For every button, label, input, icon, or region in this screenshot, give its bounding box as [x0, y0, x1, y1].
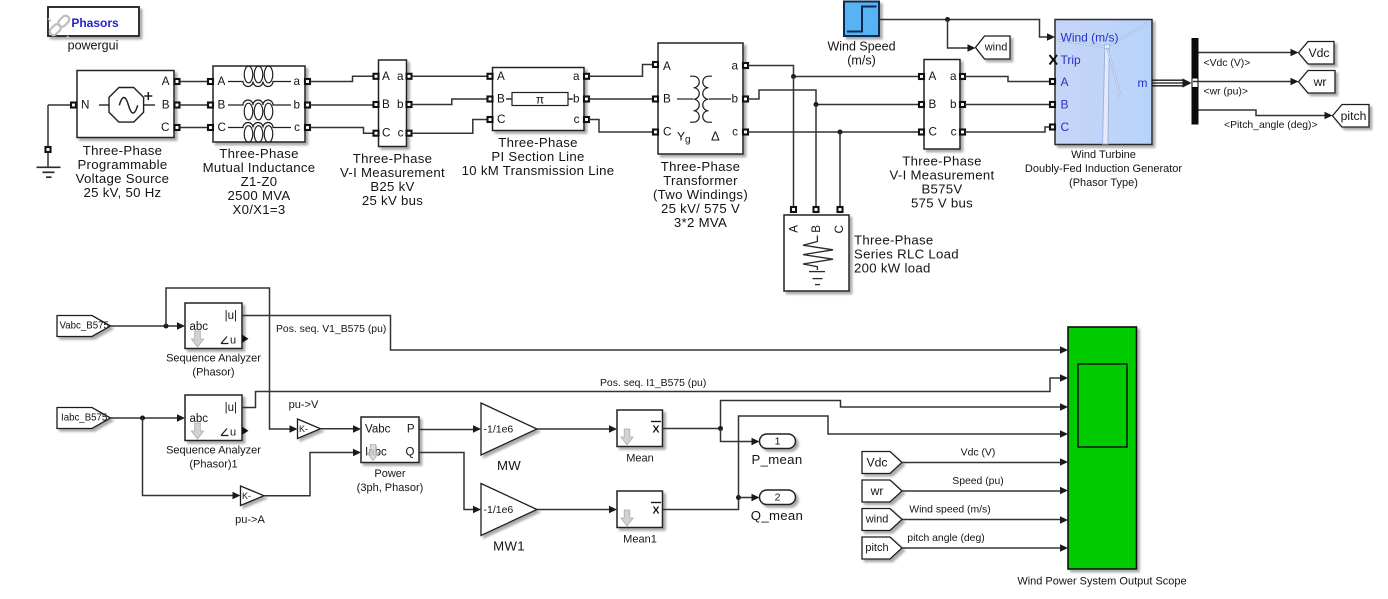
block: Sequence Analyzer (Phasor)1	[166, 395, 261, 471]
svg-text:2: 2	[775, 492, 781, 504]
svg-text:pitch: pitch	[1341, 109, 1367, 123]
svg-text:B: B	[929, 98, 937, 111]
wire bus to Vdc goto	[1199, 52, 1292, 54]
from tag pitch	[862, 537, 902, 559]
wire Mean1 to junction and scope in4	[663, 416, 1061, 510]
svg-text:1: 1	[775, 436, 781, 448]
svg-text:Vabc_B575: Vabc_B575	[60, 321, 109, 332]
svg-text:c: c	[732, 126, 738, 139]
wire wind speed to turbine Wind input	[879, 20, 1047, 38]
svg-text:a: a	[293, 75, 300, 88]
wire VI25 a to PI A	[412, 75, 488, 77]
svg-text:Mean: Mean	[626, 453, 654, 465]
wire junction to Q_mean	[739, 497, 753, 499]
wire tap a to RLC A	[793, 77, 795, 208]
svg-text:A: A	[1061, 75, 1069, 89]
wire junction to P_mean	[721, 429, 753, 442]
svg-text:V-I Measurement: V-I Measurement	[890, 168, 995, 183]
svg-text:b: b	[293, 99, 300, 112]
svg-text:3*2 MVA: 3*2 MVA	[674, 215, 727, 230]
junction Iabc	[140, 416, 145, 421]
wire VI575 a to turbine A	[965, 77, 1050, 82]
wire Q to MW1	[419, 453, 474, 510]
wire VI25 c to PI C	[412, 120, 488, 134]
wire mutual b to VI25 B	[310, 104, 373, 106]
wire mutual a to VI25 A	[310, 76, 373, 81]
svg-text:B: B	[382, 98, 390, 111]
svg-text:a: a	[573, 70, 580, 83]
powergui block	[48, 7, 139, 53]
svg-text:A: A	[788, 225, 801, 233]
svg-text:c: c	[574, 113, 580, 126]
goto tag wr	[1299, 71, 1336, 94]
svg-text:Wind speed (m/s): Wind speed (m/s)	[909, 505, 990, 516]
svg-text:Wind Power System Output Scope: Wind Power System Output Scope	[1017, 576, 1186, 588]
wire tap b to RLC B	[815, 105, 817, 208]
svg-text:Pos. seq. I1_B575 (pu): Pos. seq. I1_B575 (pu)	[600, 378, 706, 389]
svg-text:-1/1e6: -1/1e6	[484, 504, 514, 516]
turbine art	[1057, 23, 1148, 144]
svg-text:C: C	[1061, 120, 1070, 134]
from tag wind	[862, 509, 902, 531]
svg-text:pu->V: pu->V	[289, 399, 319, 411]
svg-text:B: B	[162, 99, 170, 112]
svg-text:B25 kV: B25 kV	[370, 179, 414, 194]
svg-text:pu->A: pu->A	[235, 514, 265, 526]
svg-text:<wr (pu)>: <wr (pu)>	[1204, 87, 1248, 98]
wire VI575 b to turbine B	[965, 104, 1050, 106]
svg-text:Three-Phase: Three-Phase	[661, 159, 741, 174]
svg-text:<Vdc (V)>: <Vdc (V)>	[1204, 58, 1251, 69]
svg-text:Y: Y	[677, 130, 685, 144]
trip X unconnected	[1050, 55, 1058, 65]
svg-text:Iabc_B575: Iabc_B575	[61, 413, 107, 424]
wire P to MW	[419, 429, 474, 431]
wire Vabc junction to pu-V gain	[166, 288, 290, 429]
svg-text:10 kM Transmission Line: 10 kM Transmission Line	[462, 163, 615, 178]
svg-text:a: a	[397, 70, 404, 83]
wire XFMR b to VI575 B	[748, 90, 919, 105]
wire XFMR c to VI575 C	[748, 131, 919, 133]
svg-text:Transformer: Transformer	[663, 173, 738, 188]
svg-text:(Phasor): (Phasor)	[192, 367, 234, 379]
junction b	[814, 102, 819, 107]
svg-text:Wind (m/s): Wind (m/s)	[1061, 31, 1119, 45]
svg-text:A: A	[929, 70, 937, 83]
svg-text:u: u	[230, 335, 236, 347]
svg-text:-1/1e6: -1/1e6	[484, 424, 514, 436]
svg-text:Voltage Source: Voltage Source	[76, 171, 170, 186]
bus selector bar	[1192, 38, 1199, 125]
svg-text:C: C	[497, 113, 505, 126]
svg-text:g: g	[685, 135, 691, 146]
svg-text:Vdc: Vdc	[866, 456, 887, 470]
wire pitch to scope in8	[902, 547, 1061, 549]
svg-text:c: c	[294, 121, 300, 134]
svg-text:c: c	[951, 126, 957, 139]
svg-text:P: P	[407, 424, 415, 436]
svg-text:π: π	[536, 93, 544, 107]
wire Vabc to analyzer1	[111, 325, 178, 327]
wire mutual c to VI25 C	[310, 128, 373, 134]
from tag Iabc_B575	[57, 408, 111, 429]
svg-text:Pos. seq. V1_B575 (pu): Pos. seq. V1_B575 (pu)	[276, 324, 386, 335]
svg-text:C: C	[161, 121, 169, 134]
wire pu-A to Power Iabc	[264, 453, 354, 496]
wire Mean to junction and scope in3	[663, 401, 1061, 429]
svg-text:PI Section Line: PI Section Line	[491, 149, 584, 164]
svg-text:(Phasor Type): (Phasor Type)	[1069, 177, 1138, 189]
wire source C to mutual C	[180, 127, 209, 129]
svg-text:575 V bus: 575 V bus	[911, 196, 973, 211]
wire I1 positive sequence to scope in2	[242, 378, 1061, 408]
svg-text:Vdc: Vdc	[1308, 46, 1329, 60]
outport Q_mean	[751, 490, 803, 523]
svg-text:B: B	[810, 225, 823, 233]
svg-text:B575V: B575V	[921, 182, 962, 197]
svg-text:wr: wr	[870, 484, 884, 498]
svg-text:Three-Phase: Three-Phase	[498, 135, 578, 150]
junction wind	[945, 17, 950, 22]
svg-text:25 kV/ 575 V: 25 kV/ 575 V	[661, 201, 740, 216]
gain MW	[481, 403, 537, 473]
wire VI575 c to turbine C	[965, 127, 1050, 132]
svg-text:X: X	[652, 424, 659, 436]
svg-text:25 kV bus: 25 kV bus	[362, 193, 423, 208]
svg-text:C: C	[218, 121, 226, 134]
block: Three-Phase Programmable Voltage Source	[71, 71, 180, 201]
svg-text:A: A	[497, 70, 505, 83]
wire wind to scope in7	[902, 519, 1061, 521]
svg-text:m: m	[1138, 76, 1148, 90]
svg-text:Three-Phase: Three-Phase	[854, 233, 934, 248]
svg-text:2500 MVA: 2500 MVA	[228, 188, 291, 203]
junction a	[791, 74, 796, 79]
block: Power (3ph, Phasor)	[357, 417, 424, 494]
wire Vdc to scope in5	[902, 462, 1061, 464]
wire PI a to XFMR A	[589, 65, 653, 77]
block: Wind Speed step source	[827, 2, 895, 68]
svg-text:wind: wind	[865, 514, 889, 526]
svg-text:u: u	[230, 427, 236, 439]
from tag wr	[862, 480, 902, 502]
svg-text:A: A	[218, 75, 226, 88]
wire junction to wind goto	[948, 20, 969, 49]
bus wire m to bus selector	[1152, 80, 1184, 86]
svg-text:K-: K-	[242, 491, 251, 501]
gain pu->A	[235, 486, 265, 526]
svg-text:wr: wr	[1313, 75, 1327, 89]
svg-text:b: b	[397, 98, 404, 111]
svg-text:pitch angle (deg): pitch angle (deg)	[907, 533, 984, 544]
outport P_mean	[752, 434, 803, 467]
from tag Vabc_B575	[57, 316, 111, 337]
from tag Vdc	[862, 452, 902, 474]
svg-text:Programmable: Programmable	[77, 157, 167, 172]
gain MW1	[481, 484, 537, 554]
svg-text:A: A	[382, 70, 390, 83]
block: Three-Phase PI Section Line	[462, 68, 615, 179]
svg-text:|u|: |u|	[225, 310, 237, 322]
svg-text:Three-Phase: Three-Phase	[353, 151, 433, 166]
wire source B to mutual B	[180, 104, 209, 106]
svg-text:wind: wind	[984, 42, 1008, 54]
block: Wind Power System Output Scope	[1017, 327, 1186, 588]
svg-text:A: A	[663, 60, 671, 73]
gain pu->V	[289, 399, 321, 439]
svg-text:(Two Windings): (Two Windings)	[653, 187, 748, 202]
wire bus to pitch goto	[1199, 110, 1326, 116]
junction Vabc	[164, 324, 169, 329]
svg-text:B: B	[1061, 98, 1069, 112]
svg-text:Phasors: Phasors	[71, 16, 119, 30]
svg-text:Power: Power	[374, 468, 406, 480]
svg-text:Z1-Z0: Z1-Z0	[241, 174, 278, 189]
svg-text:P_mean: P_mean	[752, 452, 803, 467]
wire XFMR a to VI575 A	[748, 66, 919, 77]
svg-text:Sequence Analyzer: Sequence Analyzer	[166, 353, 261, 365]
wire PI c to XFMR C	[589, 120, 653, 133]
svg-text:N: N	[81, 99, 89, 112]
svg-text:MW1: MW1	[493, 539, 525, 554]
wire MW1 to Mean1	[537, 509, 610, 511]
wire wr to scope in6	[902, 490, 1061, 492]
svg-text:Q_mean: Q_mean	[751, 508, 803, 523]
goto tag Vdc	[1299, 42, 1335, 65]
wire Iabc to analyzer2	[111, 417, 178, 419]
svg-text:Wind Speed: Wind Speed	[827, 40, 895, 54]
block: Three-Phase Transformer (Two Windings)	[653, 43, 748, 230]
svg-text:Doubly-Fed Induction Generator: Doubly-Fed Induction Generator	[1025, 163, 1182, 175]
junction c	[838, 130, 843, 135]
svg-text:a: a	[731, 60, 738, 73]
svg-text:B: B	[497, 93, 505, 106]
svg-text:b: b	[950, 98, 957, 111]
svg-text:Trip: Trip	[1061, 53, 1082, 67]
svg-text:b: b	[573, 93, 580, 106]
block: Three-Phase V-I Measurement B25 kV	[340, 60, 445, 208]
svg-text:V-I Measurement: V-I Measurement	[340, 165, 445, 180]
svg-text:|u|: |u|	[225, 402, 237, 414]
wire tap c to RLC C	[839, 132, 841, 207]
svg-text:Mutual Inductance: Mutual Inductance	[203, 160, 316, 175]
wire VI25 b to PI B	[412, 99, 488, 105]
wire bus to wr goto	[1193, 81, 1291, 83]
block: Mean1	[617, 491, 663, 546]
wire V1 positive sequence to scope in1	[242, 316, 1061, 351]
svg-text:Sequence Analyzer: Sequence Analyzer	[166, 445, 261, 457]
svg-text:X: X	[652, 505, 659, 517]
svg-text:Three-Phase: Three-Phase	[83, 143, 163, 158]
svg-text:Series RLC Load: Series RLC Load	[854, 247, 959, 262]
svg-text:C: C	[663, 126, 671, 139]
goto tag wind	[976, 36, 1011, 59]
wire source A to mutual A	[180, 81, 209, 83]
block: Sequence Analyzer (Phasor)	[166, 303, 261, 379]
svg-text:a: a	[950, 70, 957, 83]
svg-text:(m/s): (m/s)	[847, 54, 875, 68]
junction Mean out	[718, 426, 723, 431]
block: Three-Phase V-I Measurement B575V	[890, 60, 995, 211]
svg-text:Vdc (V): Vdc (V)	[961, 448, 996, 459]
svg-text:25 kV, 50 Hz: 25 kV, 50 Hz	[84, 185, 162, 200]
svg-text:(3ph, Phasor): (3ph, Phasor)	[357, 482, 424, 494]
svg-text:MW: MW	[497, 458, 521, 473]
block: Wind Turbine Doubly-Fed Induction Generator	[1025, 20, 1182, 190]
junction Mean1 out	[736, 495, 741, 500]
block: Three-Phase Mutual Inductance	[203, 66, 316, 217]
svg-text:Wind Turbine: Wind Turbine	[1071, 149, 1136, 161]
wire Iabc junction to pu-A gain	[143, 418, 234, 496]
svg-text:powergui: powergui	[68, 39, 119, 53]
svg-text:Δ: Δ	[711, 129, 720, 144]
svg-text:K-: K-	[299, 424, 308, 434]
svg-text:c: c	[398, 127, 404, 140]
svg-text:b: b	[731, 93, 738, 106]
svg-text:Vabc: Vabc	[365, 424, 391, 436]
svg-text:Three-Phase: Three-Phase	[902, 154, 982, 169]
wire MW to Mean	[537, 428, 610, 430]
svg-text:Speed (pu): Speed (pu)	[952, 476, 1003, 487]
ground symbol	[37, 105, 61, 177]
svg-text:Q: Q	[406, 447, 415, 459]
wire PI b to XFMR B	[589, 98, 653, 100]
svg-text:(Phasor)1: (Phasor)1	[189, 459, 237, 471]
svg-text:pitch: pitch	[865, 542, 888, 554]
svg-text:B: B	[663, 93, 671, 106]
svg-text:Three-Phase: Three-Phase	[219, 146, 299, 161]
svg-text:C: C	[833, 225, 846, 233]
goto tag pitch	[1333, 105, 1370, 128]
svg-text:C: C	[382, 127, 390, 140]
wire ground to N	[48, 104, 71, 106]
svg-text:200 kW load: 200 kW load	[854, 261, 931, 276]
wire pu-V to Power Vabc	[321, 428, 354, 430]
svg-text:A: A	[162, 75, 170, 88]
block: Three-Phase Series RLC Load	[784, 207, 959, 291]
svg-text:X0/X1=3: X0/X1=3	[232, 202, 285, 217]
block: Mean	[617, 410, 663, 465]
svg-text:C: C	[929, 126, 937, 139]
svg-text:B: B	[218, 99, 226, 112]
svg-text:Mean1: Mean1	[623, 534, 657, 546]
svg-text:<Pitch_angle (deg)>: <Pitch_angle (deg)>	[1224, 120, 1318, 131]
